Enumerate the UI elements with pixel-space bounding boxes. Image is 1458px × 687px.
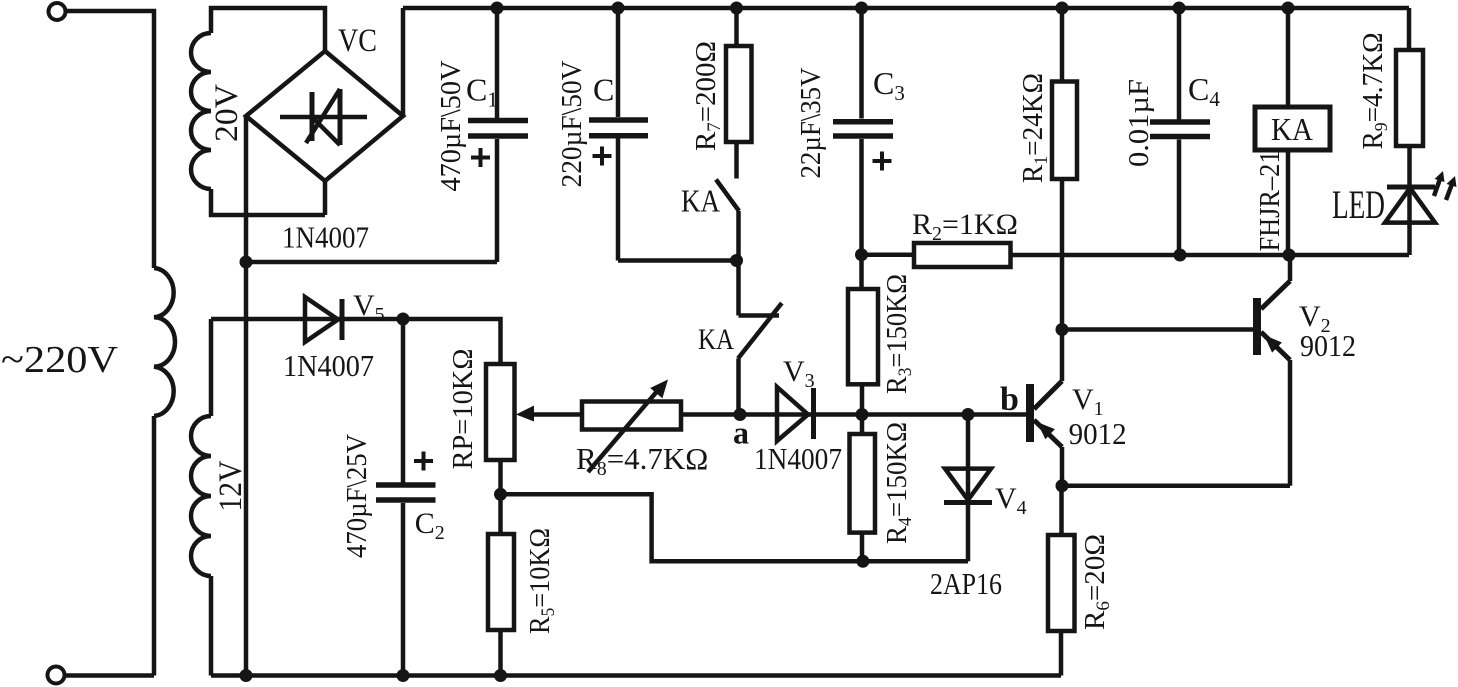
svg-text:VC: VC xyxy=(338,23,377,59)
svg-text:R9=4.7KΩ: R9=4.7KΩ xyxy=(1358,33,1391,150)
svg-text:R8=4.7KΩ: R8=4.7KΩ xyxy=(576,441,708,480)
svg-text:470µF\50V: 470µF\50V xyxy=(435,60,467,191)
svg-text:KA: KA xyxy=(698,323,734,356)
svg-text:1N4007: 1N4007 xyxy=(754,441,842,476)
svg-text:R1=24KΩ: R1=24KΩ xyxy=(1017,73,1052,183)
svg-text:KA: KA xyxy=(681,183,720,219)
svg-text:a: a xyxy=(733,415,749,451)
svg-text:R7=200Ω: R7=200Ω xyxy=(690,41,725,151)
svg-text:22µF\35V: 22µF\35V xyxy=(795,67,827,178)
svg-text:b: b xyxy=(1000,381,1019,418)
svg-text:FHJR–21: FHJR–21 xyxy=(1254,151,1286,252)
svg-text:9012: 9012 xyxy=(1069,416,1127,451)
svg-text:RP=10KΩ: RP=10KΩ xyxy=(447,349,479,470)
svg-text:20V: 20V xyxy=(209,84,245,142)
svg-text:2AP16: 2AP16 xyxy=(930,566,1002,601)
svg-text:C: C xyxy=(593,72,614,108)
svg-text:220µF\50V: 220µF\50V xyxy=(556,60,588,187)
svg-text:R6=20Ω: R6=20Ω xyxy=(1079,534,1114,630)
svg-text:~220V: ~220V xyxy=(1,339,119,381)
svg-text:0.01µF: 0.01µF xyxy=(1123,79,1155,167)
svg-text:R5=10KΩ: R5=10KΩ xyxy=(524,528,559,634)
svg-text:12V: 12V xyxy=(213,460,249,511)
svg-text:1N4007: 1N4007 xyxy=(282,220,369,255)
svg-text:R2=1KΩ: R2=1KΩ xyxy=(912,208,1018,245)
svg-text:LED: LED xyxy=(1332,182,1385,227)
svg-text:1N4007: 1N4007 xyxy=(283,348,374,383)
svg-text:9012: 9012 xyxy=(1300,328,1356,363)
svg-text:470µF\25V: 470µF\25V xyxy=(341,434,373,558)
svg-text:KA: KA xyxy=(1271,111,1313,147)
